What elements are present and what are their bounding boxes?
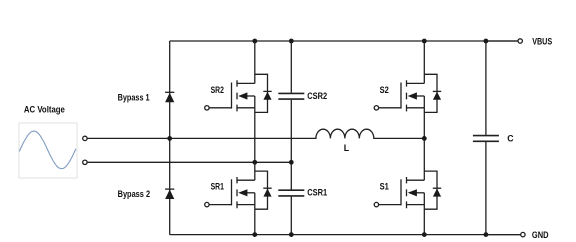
svg-text:CSR2: CSR2 xyxy=(307,91,327,101)
node SR midpoint / AC line 2 xyxy=(252,160,257,165)
diode Bypass 2 xyxy=(165,189,174,199)
wire S2 source to switch node xyxy=(423,96,425,138)
wire SR2 source to AC neutral node xyxy=(254,96,256,162)
wire AC line 2 to SR midpoint xyxy=(87,161,291,163)
node CSR2 / top rail xyxy=(289,39,294,44)
AC source sine wave xyxy=(19,131,76,169)
wire VBUS stub xyxy=(486,40,518,42)
wire CSR1 leads xyxy=(290,162,292,234)
svg-text:VBUS: VBUS xyxy=(532,37,552,47)
svg-text:CSR1: CSR1 xyxy=(307,188,327,198)
wire SR1 drain from AC neutral node xyxy=(254,162,256,180)
terminal AC line 1 xyxy=(83,136,87,140)
node S2 drain / top rail xyxy=(422,39,427,44)
node CSR1 / bottom rail xyxy=(289,232,294,237)
node C / top rail xyxy=(484,39,489,44)
node SR1 source / bottom rail xyxy=(252,232,257,237)
svg-text:GND: GND xyxy=(532,230,549,240)
AC source box xyxy=(19,123,77,178)
transistor S2 xyxy=(374,74,441,112)
svg-text:S2: S2 xyxy=(380,85,389,95)
svg-text:Bypass 2: Bypass 2 xyxy=(118,189,151,199)
svg-text:C: C xyxy=(507,134,514,144)
wire SR1 source to bottom rail xyxy=(254,193,256,235)
transistor SR1 xyxy=(205,171,272,209)
wire top rail VBUS bus xyxy=(170,40,518,42)
capacitor CSR1 xyxy=(278,190,304,196)
wire bottom rail GND bus xyxy=(170,234,521,236)
wire AC line 1 with inductor to switch node xyxy=(87,129,424,138)
terminal GND xyxy=(521,232,525,236)
capacitor C output xyxy=(473,136,499,142)
wire S1 drain from switch node xyxy=(423,138,425,180)
node switch node S leg xyxy=(422,136,427,141)
wire S2 drain to top rail xyxy=(423,41,425,83)
terminal VBUS xyxy=(518,39,522,43)
terminal AC line 2 xyxy=(83,160,87,164)
svg-text:AC Voltage: AC Voltage xyxy=(24,105,65,115)
wire output capacitor C leads xyxy=(485,41,487,235)
wire S1 source to bottom rail xyxy=(423,193,425,235)
svg-text:SR2: SR2 xyxy=(211,85,224,95)
node bypass / AC line 1 xyxy=(167,136,172,141)
transistor SR2 xyxy=(205,74,272,112)
capacitor CSR2 xyxy=(278,93,304,99)
wire SR2 drain to top rail xyxy=(254,41,256,83)
svg-text:L: L xyxy=(344,143,350,153)
wire CSR2 leads xyxy=(290,41,292,162)
wire GND stub xyxy=(486,234,521,236)
svg-text:S1: S1 xyxy=(380,182,389,192)
node CSR junction / AC line 2 xyxy=(289,160,294,165)
node SR2 drain / top rail xyxy=(252,39,257,44)
svg-text:SR1: SR1 xyxy=(211,182,224,192)
transistor S1 xyxy=(374,171,441,209)
node S1 source / bottom rail xyxy=(422,232,427,237)
diode Bypass 1 xyxy=(165,92,174,102)
wire bypass branch vertical xyxy=(169,41,171,235)
svg-text:Bypass 1: Bypass 1 xyxy=(118,92,150,102)
node C / bottom rail xyxy=(484,232,489,237)
